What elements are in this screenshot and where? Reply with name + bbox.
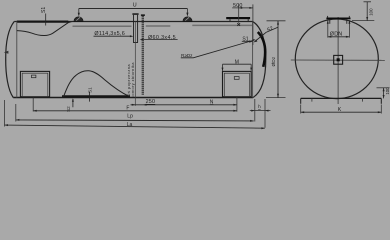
S2 arrow leader <box>255 32 267 41</box>
svg-text:U: U <box>133 2 137 8</box>
K arrows <box>301 111 305 113</box>
tank shell top line thick broken-section part <box>17 20 69 22</box>
lifting lug right <box>183 17 192 22</box>
ODN extension right <box>348 20 350 38</box>
tank shell bottom thick section (hump region) <box>62 95 130 97</box>
svg-text:K: K <box>338 107 342 113</box>
svg-text:S1: S1 <box>41 7 47 13</box>
h extension lines <box>254 99 256 122</box>
lug right hatch line <box>185 17 189 20</box>
U dim left arrow <box>78 13 80 16</box>
manhole leg left <box>229 19 231 22</box>
La left arrow <box>5 124 9 126</box>
S2 arrowhead <box>254 40 258 43</box>
end view horizontal centerline <box>291 59 385 61</box>
svg-text:250: 250 <box>146 99 156 105</box>
saddle base right edge <box>380 98 382 103</box>
nozzle N1 flange cap <box>132 13 138 15</box>
La right arrow <box>261 127 265 129</box>
100 top tick <box>364 1 372 3</box>
M dim right drop+arrow <box>250 64 252 71</box>
500 right extension line <box>252 4 254 45</box>
nozzle N1 centerline (to 250 dim) <box>134 22 136 106</box>
nozzle N1 (Ø114.3) left wall <box>133 15 135 43</box>
nozzle N2 top cap <box>141 14 145 16</box>
left dished head <box>6 22 15 98</box>
manhole center cross mark <box>237 23 240 26</box>
Lp right arrow <box>250 120 254 122</box>
U dim right arrow <box>186 13 188 17</box>
bottom broken-out hump <box>64 71 130 97</box>
F left extension <box>32 98 34 112</box>
center mark square <box>334 55 343 64</box>
250 dim arrows <box>132 104 136 106</box>
end view saddle base line <box>301 97 382 99</box>
R>=Dz arrow <box>252 39 256 41</box>
saddle left small plate detail <box>32 75 36 78</box>
manhole centerline <box>238 4 240 22</box>
lug left hatch line <box>76 17 80 20</box>
arrow for Ø114,3x5,6 <box>130 35 134 37</box>
tank shell top line <box>14 21 252 23</box>
Lp dimension line <box>16 120 254 121</box>
flange stud tick right <box>348 16 350 18</box>
svg-text:100: 100 <box>368 8 373 16</box>
nozzle N1 open end <box>133 42 138 44</box>
manhole cover plate <box>226 17 250 19</box>
manhole leg right <box>247 19 249 22</box>
h dimension (side view) <box>250 110 271 112</box>
saddle right small plate detail <box>234 77 239 80</box>
Lp left extension <box>15 104 17 122</box>
U dim left drop <box>78 9 80 16</box>
flange stud tick left <box>327 16 329 18</box>
K dim extensions <box>300 105 302 114</box>
saddle support left outer <box>20 71 49 96</box>
U dimension line <box>79 8 188 10</box>
saddle base left edge <box>300 98 302 103</box>
S1 right arrow <box>249 40 253 42</box>
S2 slanted underline <box>266 27 278 32</box>
saddle horn tick left <box>311 98 313 101</box>
inner gray line segment 1 <box>73 25 132 27</box>
100 right dim tick <box>377 87 390 89</box>
inner gray line segment 3 <box>192 24 252 26</box>
La left extension <box>4 100 6 127</box>
ODN extension left <box>327 20 329 38</box>
left head weld seam <box>16 22 18 98</box>
M dimension line <box>223 63 252 65</box>
svg-text:R≥Dz: R≥Dz <box>181 53 193 58</box>
saddle center extension line <box>236 97 238 112</box>
svg-text:Lp: Lp <box>127 114 133 120</box>
svg-text:100: 100 <box>385 87 390 95</box>
center dot <box>337 58 340 61</box>
arrow for Ø60,3x4,5 <box>140 39 144 41</box>
ODz vertical dimension line <box>277 21 279 98</box>
svg-text:M: M <box>235 59 239 65</box>
ODN dim line <box>328 36 350 38</box>
Lp left arrow <box>16 119 19 121</box>
right head section crescent (thick wall) <box>258 32 265 67</box>
S2 leader with up arrow <box>72 99 74 107</box>
F dimension line <box>33 110 237 112</box>
saddle support right inner line <box>224 73 249 97</box>
100 right arrows <box>383 88 385 91</box>
svg-text:F: F <box>126 105 129 111</box>
F left arrow <box>33 110 37 112</box>
svg-text:komory zbiornika: komory zbiornika <box>131 62 135 98</box>
saddle support left inner line <box>22 73 48 97</box>
end view circle <box>295 19 378 99</box>
flange neck right <box>346 19 348 24</box>
250/N dimension line <box>131 104 237 106</box>
right dished head outer curve <box>253 22 266 98</box>
svg-text:La: La <box>127 122 133 128</box>
broken-out section boundary top-left (shell thickness S1) <box>17 21 73 35</box>
S1 hump leader <box>89 92 91 102</box>
flange neck left <box>329 19 331 24</box>
saddle support right outer <box>223 71 252 96</box>
ODN arrows up to plate <box>327 20 329 24</box>
nozzle N1 right wall <box>137 15 139 43</box>
N dim right arrow <box>233 104 237 106</box>
svg-text:N: N <box>210 99 214 105</box>
svg-text:S1: S1 <box>88 87 93 93</box>
end view vertical centerline <box>337 17 339 104</box>
leader for Ø114,3x5,6 <box>94 35 132 37</box>
ODN arrows <box>328 36 332 38</box>
inner gray line segment 2 <box>146 25 171 27</box>
ODz bottom arrow <box>277 94 279 98</box>
F right arrow <box>233 110 237 112</box>
K dim line <box>301 111 382 113</box>
100 top vertical line <box>366 2 368 21</box>
100 right vertical <box>383 88 385 99</box>
ODz top extension line <box>267 20 286 22</box>
U dim right drop <box>186 9 188 16</box>
S1 right leader <box>242 40 252 42</box>
ODz top arrow <box>277 21 279 25</box>
tank shell bottom line <box>13 97 253 99</box>
lifting lug left <box>74 17 83 22</box>
La dimension line <box>5 125 265 128</box>
right head weld seam <box>252 22 254 98</box>
500 dim arrows <box>239 7 243 9</box>
ODz bottom extension line <box>266 97 286 99</box>
nozzle N2 dip tube (Ø60.3, hatched) <box>142 16 144 95</box>
svg-text:h: h <box>258 104 261 109</box>
M dim left drop+arrow <box>222 64 224 71</box>
end view flange plate <box>326 18 350 20</box>
saddle horn tick right <box>362 98 364 101</box>
S1 top-left leader <box>45 14 47 26</box>
left head apex mark <box>4 51 9 54</box>
100 top dim extension <box>352 20 374 22</box>
R>=Dz underline leader <box>181 40 255 58</box>
svg-text:ØDN: ØDN <box>330 32 343 38</box>
100 top bottom arrow <box>366 17 368 21</box>
500 dim line <box>232 7 253 9</box>
leader for Ø60,3x4,5 <box>142 39 178 41</box>
svg-text:ØDz: ØDz <box>271 56 277 66</box>
